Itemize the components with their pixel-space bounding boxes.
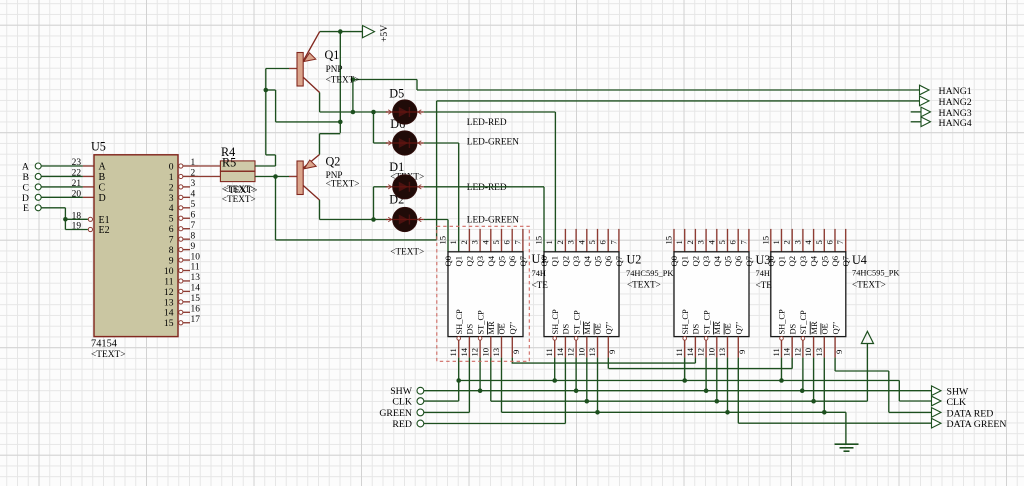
svg-text:LED-RED: LED-RED: [467, 118, 507, 128]
svg-text:6: 6: [169, 224, 174, 235]
junction MR bus U4: [811, 399, 816, 404]
svg-text:10: 10: [164, 266, 174, 277]
svg-text:15: 15: [164, 318, 174, 329]
terminal input GREEN: [379, 408, 423, 419]
terminal input A: [22, 161, 41, 172]
power terminal +5V: [363, 25, 391, 42]
svg-text:15: 15: [191, 294, 201, 304]
U2 bottom pins wiring: [553, 337, 608, 424]
svg-text:14: 14: [459, 347, 469, 356]
svg-text:Q4: Q4: [486, 255, 496, 266]
wire U4 pin9 to DATA RED: [835, 371, 931, 412]
wire U3 pin9 to DATA GREEN: [738, 422, 931, 424]
svg-text:4: 4: [480, 240, 490, 245]
svg-text:8: 8: [191, 231, 196, 241]
IC U2 body: [544, 252, 619, 337]
svg-text:20: 20: [72, 190, 82, 200]
svg-text:13: 13: [164, 297, 174, 308]
terminal input B: [22, 172, 41, 183]
terminal output HANG3: [921, 107, 972, 119]
svg-text:<TEXT>: <TEXT>: [326, 75, 360, 85]
U3 top pin numbers: [664, 236, 749, 245]
transistor Q1 PNP: [297, 32, 320, 93]
svg-text:Q3: Q3: [475, 256, 485, 267]
svg-text:OE: OE: [594, 323, 603, 334]
U1 labels (clipped by U2): [532, 252, 549, 290]
wire D2 cathode to U1 pin15: [424, 220, 448, 252]
junction CLK bus U2: [552, 378, 557, 383]
wire input A to U5: [41, 165, 94, 167]
svg-text:14: 14: [191, 284, 201, 294]
junction SHW bus U2: [574, 388, 579, 393]
svg-text:DATA GREEN: DATA GREEN: [947, 419, 1007, 430]
svg-text:OE: OE: [821, 323, 830, 334]
U1 bottom pin numbers: [448, 347, 521, 356]
svg-text:4: 4: [191, 190, 196, 200]
junction on +5V vertical: [338, 120, 343, 125]
wire HANG2 row: [437, 100, 920, 102]
svg-text:Q6: Q6: [603, 255, 613, 266]
LED D1: [386, 175, 424, 199]
svg-text:74154: 74154: [91, 338, 118, 349]
LED D5: [386, 100, 424, 124]
svg-text:10: 10: [576, 348, 586, 357]
svg-text:Q7’: Q7’: [605, 321, 614, 334]
svg-text:74H: 74H: [532, 269, 546, 278]
terminal output SHW: [932, 386, 970, 398]
svg-text:6: 6: [598, 240, 608, 245]
svg-text:Q1: Q1: [777, 256, 787, 267]
terminal input D: [22, 193, 41, 204]
svg-text:12: 12: [470, 348, 480, 357]
terminal input CLK: [392, 397, 423, 408]
junction MR bus U3: [715, 399, 720, 404]
svg-text:11: 11: [674, 348, 684, 356]
svg-text:74HC595_PK: 74HC595_PK: [626, 269, 673, 278]
svg-text:Q6: Q6: [507, 255, 517, 266]
svg-text:1: 1: [169, 172, 174, 183]
wire U5 pin1 to R4: [198, 165, 220, 167]
svg-text:Q6: Q6: [830, 255, 840, 266]
U1 bottom pins wiring: [457, 337, 512, 413]
svg-text:SH_CP: SH_CP: [455, 309, 464, 334]
svg-text:7: 7: [512, 240, 522, 245]
U4 labels: [852, 253, 899, 290]
wire HANG3 stub: [911, 111, 921, 113]
svg-text:3: 3: [792, 240, 802, 244]
junction node E: [63, 217, 68, 222]
selection box around U1: [437, 226, 530, 361]
svg-text:4: 4: [803, 240, 813, 245]
Q1 labels: [325, 48, 360, 85]
svg-text:Q4: Q4: [712, 255, 722, 266]
svg-text:14: 14: [782, 347, 792, 356]
svg-text:12: 12: [696, 348, 706, 357]
junction OE bus U2: [595, 410, 600, 415]
LED D2: [386, 207, 424, 231]
svg-text:U5: U5: [91, 140, 106, 154]
svg-text:Q7’: Q7’: [831, 321, 840, 334]
svg-text:<TEXT>: <TEXT>: [627, 280, 661, 290]
svg-text:DS: DS: [466, 323, 475, 334]
terminal output HANG1: [920, 85, 972, 97]
U3 bottom pin numbers: [674, 347, 747, 356]
junction OE bus U4: [822, 410, 827, 415]
wire U5 pin2 to R5: [198, 176, 220, 178]
svg-text:4: 4: [169, 203, 174, 214]
svg-text:2: 2: [191, 169, 196, 179]
wire CLK terminal to U1 pin11: [424, 400, 459, 402]
svg-text:Q3: Q3: [571, 256, 581, 267]
U5 value labels: [91, 338, 126, 360]
wire R5 to Q2 base: [255, 176, 289, 178]
junction SHW bus U1: [478, 388, 483, 393]
svg-text:MR: MR: [583, 321, 592, 334]
svg-text:R5: R5: [222, 156, 236, 170]
svg-text:Q2: Q2: [690, 256, 700, 267]
svg-text:B: B: [99, 172, 106, 183]
U1 output labels Q0-Q7: [443, 255, 528, 266]
svg-text:D: D: [22, 193, 29, 204]
svg-text:11: 11: [164, 276, 173, 287]
svg-text:ST_CP: ST_CP: [476, 310, 485, 335]
svg-text:Q1: Q1: [550, 256, 560, 267]
terminal input E: [23, 203, 41, 214]
resistor R5: [220, 171, 255, 181]
junction Q2 base node: [273, 174, 278, 179]
junction collector row: [351, 110, 356, 115]
U2 output labels Q0-Q7: [539, 255, 624, 266]
svg-text:<TE: <TE: [532, 280, 549, 290]
svg-text:14: 14: [685, 347, 695, 356]
U3 bottom pin labels: [681, 309, 744, 334]
svg-text:MR: MR: [713, 321, 722, 334]
svg-text:HANG2: HANG2: [939, 97, 972, 108]
svg-text:9: 9: [169, 255, 174, 266]
svg-text:5: 5: [191, 200, 196, 210]
svg-text:10: 10: [706, 348, 716, 357]
U3 bottom pins wiring: [683, 337, 738, 424]
svg-text:13: 13: [491, 348, 501, 357]
svg-text:11: 11: [191, 263, 200, 273]
wire +5V vertical: [339, 32, 341, 133]
svg-text:Q4: Q4: [582, 255, 592, 266]
svg-text:6: 6: [502, 240, 512, 245]
U2 bottom pin numbers: [544, 347, 617, 356]
svg-text:12: 12: [566, 348, 576, 357]
svg-text:3: 3: [566, 240, 576, 244]
svg-text:1: 1: [448, 240, 458, 244]
LED D6: [386, 131, 424, 155]
svg-text:2: 2: [169, 182, 174, 193]
svg-text:DS: DS: [692, 323, 701, 334]
svg-text:13: 13: [814, 348, 824, 357]
wire D5 cathode to U2 pin1: [424, 112, 556, 252]
wire +5V rail: [320, 31, 363, 33]
svg-text:5: 5: [814, 240, 824, 244]
junction +5V rail: [338, 29, 343, 34]
terminal output HANG2: [920, 96, 972, 108]
svg-text:Q6: Q6: [733, 255, 743, 266]
svg-text:22: 22: [72, 169, 82, 179]
svg-text:4: 4: [706, 240, 716, 245]
svg-text:U4: U4: [852, 253, 867, 267]
U5 output pin numbers: [191, 158, 201, 325]
R4 value labels overlapped: [222, 184, 258, 195]
svg-text:B: B: [22, 172, 29, 183]
svg-text:E2: E2: [99, 225, 110, 236]
svg-text:HANG1: HANG1: [939, 86, 972, 97]
svg-text:Q2: Q2: [326, 155, 341, 169]
junction SHW bus U3: [704, 388, 709, 393]
svg-text:6: 6: [825, 240, 835, 245]
wire D6 anode: [374, 142, 388, 144]
svg-text:14: 14: [164, 308, 174, 319]
junction CLK bus U1: [456, 378, 461, 383]
svg-text:RED: RED: [392, 419, 412, 430]
junction D2 anode: [371, 217, 376, 222]
svg-text:Q2: Q2: [560, 256, 570, 267]
svg-text:6: 6: [191, 210, 196, 220]
terminal input C: [22, 182, 41, 193]
svg-text:15: 15: [438, 236, 448, 245]
junction Q1 base node: [264, 88, 269, 93]
svg-text:7: 7: [191, 221, 196, 231]
svg-text:<TEXT>: <TEXT>: [326, 179, 360, 189]
D2 label: [389, 193, 424, 257]
svg-text:A: A: [99, 162, 107, 173]
svg-text:Q7’: Q7’: [509, 321, 518, 334]
svg-text:LED-GREEN: LED-GREEN: [467, 138, 519, 148]
svg-text:Q7: Q7: [744, 255, 754, 266]
svg-text:14: 14: [555, 347, 565, 356]
transistor Q2 PNP: [297, 155, 320, 201]
svg-text:5: 5: [169, 214, 174, 225]
svg-text:Q5: Q5: [497, 256, 507, 267]
svg-text:10: 10: [803, 348, 813, 357]
svg-text:2: 2: [459, 240, 469, 244]
svg-text:Q4: Q4: [809, 255, 819, 266]
svg-text:15: 15: [664, 236, 674, 245]
svg-text:SHW: SHW: [390, 386, 413, 397]
wire D5-D6 anode tie: [373, 112, 375, 143]
svg-text:11: 11: [771, 348, 781, 356]
svg-text:10: 10: [480, 348, 490, 357]
svg-text:GREEN: GREEN: [379, 408, 412, 419]
svg-text:10: 10: [191, 252, 201, 262]
svg-text:18: 18: [72, 212, 82, 222]
svg-text:2: 2: [685, 240, 695, 244]
wire Q2 collector net to LEDs D1 D2: [320, 200, 388, 220]
svg-text:Q2: Q2: [464, 256, 474, 267]
svg-text:5: 5: [491, 240, 501, 244]
svg-text:7: 7: [169, 235, 174, 246]
svg-text:13: 13: [191, 273, 201, 283]
U3 output labels Q0-Q7: [669, 255, 754, 266]
svg-text:Q3: Q3: [701, 256, 711, 267]
IC U3 74HC595 top pins: [674, 229, 749, 252]
svg-text:7: 7: [835, 240, 845, 245]
wire input D to U5: [41, 196, 94, 198]
IC U2 74HC595 top pins: [565, 229, 619, 252]
svg-text:D: D: [99, 193, 106, 204]
svg-text:A: A: [22, 161, 29, 172]
U4 bottom pin numbers: [771, 347, 844, 356]
wire MR bus row to supply arrow: [491, 344, 868, 402]
svg-text:PNP: PNP: [326, 64, 343, 74]
junction SHW bus U4: [800, 388, 805, 393]
terminal output DATA RED: [932, 408, 994, 420]
svg-text:Q3: Q3: [798, 256, 808, 267]
terminal output DATA GREEN: [932, 418, 1007, 430]
wire OE bus row to ground: [502, 412, 846, 444]
junction D5 anode: [371, 110, 376, 115]
svg-text:<TEXT>: <TEXT>: [91, 350, 126, 360]
wire Q1 base: [266, 69, 297, 91]
wire input C to U5: [41, 186, 94, 188]
U4 bottom pin labels: [778, 309, 841, 334]
svg-text:ST_CP: ST_CP: [702, 310, 711, 335]
svg-text:17: 17: [191, 315, 201, 325]
ground: [835, 444, 859, 451]
terminal input SHW: [390, 386, 424, 397]
svg-text:<TEXT>: <TEXT>: [222, 194, 256, 204]
U5 enable pins E1 E2 with bubbles: [72, 212, 110, 237]
U4 bottom pins wiring: [780, 337, 835, 413]
svg-text:DS: DS: [788, 323, 797, 334]
svg-text:LED-RED: LED-RED: [467, 183, 507, 193]
svg-text:0: 0: [169, 161, 174, 172]
svg-text:<TEXT>: <TEXT>: [852, 280, 886, 290]
U1 bottom pin labels: [455, 309, 518, 334]
svg-text:Q2: Q2: [787, 256, 797, 267]
svg-text:Q0: Q0: [443, 256, 453, 267]
wire Q2 base node down to HANG2 net: [276, 101, 437, 240]
svg-text:3: 3: [191, 179, 196, 189]
svg-text:LED-GREEN: LED-GREEN: [467, 215, 519, 225]
wire U1 pin9 to U3 pin14: [512, 362, 696, 364]
svg-text:74HC595_PK: 74HC595_PK: [852, 269, 899, 278]
svg-text:1: 1: [771, 240, 781, 244]
svg-text:C: C: [99, 182, 106, 193]
svg-text:1: 1: [191, 158, 196, 168]
svg-text:SH_CP: SH_CP: [681, 309, 690, 334]
svg-text:ST_CP: ST_CP: [799, 310, 808, 335]
wire D1 anode: [374, 186, 388, 188]
U5 left pin numbers 23 22 21 20: [72, 158, 82, 199]
svg-text:<TE: <TE: [756, 280, 773, 290]
wire HANG4 stub: [911, 121, 921, 123]
D1 label: [389, 160, 424, 181]
svg-text:Q1: Q1: [680, 256, 690, 267]
IC U5 74154 body: [94, 155, 178, 337]
svg-text:D5: D5: [389, 86, 404, 100]
U5 output pins 0-15 with bubbles: [179, 164, 198, 325]
svg-text:U3: U3: [756, 253, 771, 267]
wire Q1 collector net to LEDs D5 D6: [320, 93, 388, 113]
svg-text:2: 2: [555, 240, 565, 244]
junction MR bus U2: [585, 399, 590, 404]
svg-text:5: 5: [587, 240, 597, 244]
wire input E to E1/E2: [41, 208, 88, 230]
wire input B to U5: [41, 175, 94, 177]
svg-text:7: 7: [738, 240, 748, 245]
wire RED terminal to U2 pin14: [424, 423, 565, 425]
svg-text:13: 13: [587, 348, 597, 357]
U4 output labels Q0-Q7: [766, 255, 851, 266]
svg-text:Q7: Q7: [518, 255, 528, 266]
svg-text:4: 4: [576, 240, 586, 245]
U5 inner output numbers 0-15: [164, 161, 174, 329]
supply arrow: [861, 331, 873, 343]
U2 bottom pin labels: [551, 309, 614, 334]
svg-text:19: 19: [72, 222, 82, 232]
wire U2 pin9 to U4 pin14: [609, 368, 793, 370]
svg-text:16: 16: [191, 305, 201, 315]
U2 labels: [626, 253, 673, 290]
svg-text:7: 7: [608, 240, 618, 245]
wire Q2 emitter to +5V net: [320, 134, 341, 155]
svg-text:C: C: [22, 182, 29, 193]
U3 labels (clipped by U4): [756, 253, 773, 290]
U1 top pin numbers: [438, 236, 523, 245]
svg-text:Q7’: Q7’: [735, 321, 744, 334]
svg-text:U2: U2: [627, 253, 642, 267]
svg-text:15: 15: [534, 236, 544, 245]
svg-text:12: 12: [792, 348, 802, 357]
svg-text:E: E: [23, 203, 29, 214]
svg-text:ST_CP: ST_CP: [572, 310, 581, 335]
junction CLK bus U3: [682, 378, 687, 383]
wire HANG1 row: [353, 80, 920, 91]
svg-text:3: 3: [470, 240, 480, 244]
wire GREEN terminal to U1 pin14: [424, 411, 469, 413]
wire base node to +5V rail: [266, 90, 341, 122]
junction OE bus U3: [725, 410, 730, 415]
svg-text:1: 1: [544, 240, 554, 244]
svg-text:Q1: Q1: [454, 256, 464, 267]
svg-text:21: 21: [72, 179, 82, 189]
svg-text:Q5: Q5: [819, 256, 829, 267]
IC U3 body: [674, 252, 749, 337]
svg-text:+5V: +5V: [379, 25, 390, 42]
U5 input pin names A B C D: [99, 162, 107, 204]
svg-text:8: 8: [169, 245, 174, 256]
terminal output HANG4: [921, 117, 972, 129]
svg-text:Q5: Q5: [723, 256, 733, 267]
svg-text:Q0: Q0: [669, 256, 679, 267]
svg-text:11: 11: [544, 348, 554, 356]
wire SHW bus row: [424, 390, 932, 392]
svg-text:74H: 74H: [756, 269, 770, 278]
svg-text:23: 23: [72, 158, 82, 168]
wire D1-D2 anode tie: [373, 187, 375, 220]
U2 top pin numbers: [534, 236, 619, 245]
svg-text:9: 9: [191, 242, 196, 252]
IC U4 74HC595 top pins: [771, 229, 846, 252]
Q2 labels: [326, 155, 360, 189]
wire up to HANG1 net: [352, 80, 354, 113]
junction CLK bus U4: [779, 378, 784, 383]
svg-text:SH_CP: SH_CP: [778, 309, 787, 334]
svg-text:OE: OE: [498, 323, 507, 334]
svg-text:3: 3: [696, 240, 706, 244]
terminal input RED: [392, 419, 423, 430]
svg-text:Q1: Q1: [325, 48, 340, 62]
svg-text:CLK: CLK: [947, 397, 967, 408]
resistor R4: [220, 161, 255, 171]
svg-text:<TEXT>: <TEXT>: [390, 247, 424, 257]
